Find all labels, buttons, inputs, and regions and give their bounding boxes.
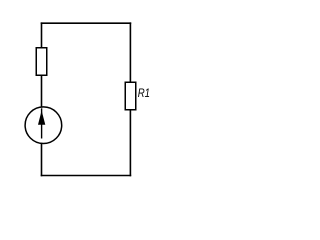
wire left upper [41, 22, 43, 48]
wire top [41, 22, 132, 24]
current source arrow shaft [41, 108, 43, 138]
svg-text:R1: R1 [138, 86, 150, 100]
wire left middle [41, 75, 43, 107]
resistor R1 [125, 82, 136, 110]
wire right upper [129, 22, 131, 82]
wire right lower [129, 110, 131, 177]
current source I1 [25, 107, 62, 144]
resistor (unlabeled, left branch) [36, 48, 47, 76]
wire bottom [41, 175, 132, 177]
wire left lower [41, 143, 43, 177]
current source arrowhead [38, 111, 45, 125]
